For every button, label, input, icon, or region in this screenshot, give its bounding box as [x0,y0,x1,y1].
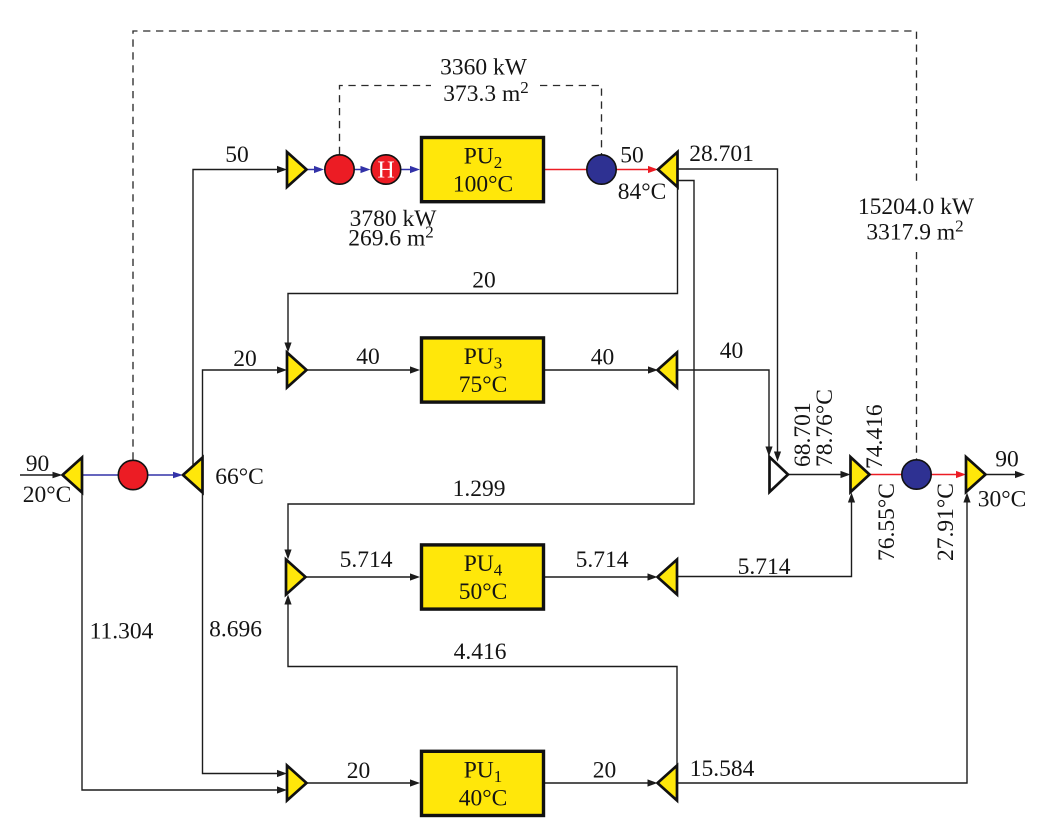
svg-text:3317.9 m2: 3317.9 m2 [866,217,963,246]
svg-text:78.76°C: 78.76°C [812,389,838,467]
mixer T1in [287,766,307,801]
svg-text:66°C: 66°C [215,464,264,490]
wire Tmix to cooler E1 hot side to Tout (red) [870,471,967,478]
wire 20 riser from T66 to PU3 mixer [203,366,288,457]
svg-text:75°C: 75°C [459,372,508,398]
wire 15.584 from T1out up to Tout [677,493,971,784]
exchanger E1 hot-side circle (blue) [902,460,931,489]
wire T1in to PU1 inlet [307,779,421,786]
splitter T4out [658,560,678,595]
heater H circle [371,155,400,184]
svg-text:20: 20 [472,268,496,294]
process unit PU2 box [422,138,544,202]
svg-text:74.416: 74.416 [862,404,888,469]
svg-text:40°C: 40°C [459,785,508,811]
wire splitter Tin to exchanger E1 cold inlet (blue) [82,474,133,476]
exchanger E2 hot-side circle (blue) [587,155,616,184]
svg-text:30°C: 30°C [978,487,1027,513]
svg-text:20: 20 [593,758,617,784]
wire 20 recycle from T2out to PU3 mixer [284,187,677,353]
wire freshwater inlet arrow [20,472,63,479]
wire 5.714 from T4out up to Tmix [677,493,855,577]
svg-text:50: 50 [620,143,644,169]
svg-text:100°C: 100°C [453,172,513,198]
wire 28.701 from T2out down to white mixer W [678,169,782,462]
splitter T1out [658,766,678,801]
svg-text:50: 50 [225,142,249,168]
wire PU3 outlet to T3out [545,366,658,373]
wire 50 riser from T66 to PU2 splitter [193,166,287,466]
svg-text:20: 20 [347,758,371,784]
svg-text:20: 20 [233,346,257,372]
svg-text:373.3 m2: 373.3 m2 [443,78,529,107]
svg-text:90: 90 [26,451,50,477]
wire dashed heat link E1 cold to E1 cooler upper run [133,31,917,460]
splitter Tin [63,458,83,493]
svg-text:40: 40 [720,338,744,364]
wire PU1 outlet to T1out [545,779,658,786]
wire treated water outlet arrow [986,471,1025,478]
wire 1.299 from T2out to PU4 mixer [284,181,694,560]
svg-text:40: 40 [356,344,380,370]
wire PU4 outlet to T4out [545,573,658,580]
process unit PU3 box [422,338,544,402]
white mixer W [770,457,789,492]
wire PU2 outlet hot stream to T2out (red) [545,166,658,173]
svg-text:76.55°C: 76.55°C [874,483,900,561]
mixer T3in [287,353,307,388]
wire white mixer W to mixer Tmix [788,471,851,478]
mixer T66 [183,458,203,493]
wire dashed heat link E2 left run [340,86,432,155]
svg-text:5.714: 5.714 [738,554,791,580]
exchanger E1 cold-side circle (red) [118,460,147,489]
wire T4in to PU4 inlet [306,573,421,580]
svg-text:269.6 m2: 269.6 m2 [348,223,434,252]
exchanger E2 cold-side circle (red) [325,155,354,184]
process unit PU4 box [422,545,544,609]
svg-text:28.701: 28.701 [689,141,754,167]
wire dashed heat link E2 right run [540,86,602,155]
splitter T2in [287,152,307,187]
svg-text:50°C: 50°C [459,579,508,605]
svg-text:11.304: 11.304 [90,619,154,645]
wire exchanger E2 to heater H (blue) [355,166,371,173]
mixer T4in [286,560,306,595]
svg-text:8.696: 8.696 [209,617,262,643]
svg-text:1.299: 1.299 [453,476,506,502]
svg-text:15.584: 15.584 [690,756,755,782]
process unit PU1 box [422,751,544,815]
svg-text:5.714: 5.714 [576,547,629,573]
wire 8.696 drop from T66 to PU1 mixer [203,493,288,778]
mixer Tmix [851,457,870,492]
wire T3in to PU3 inlet [307,366,421,373]
svg-text:3360 kW: 3360 kW [440,55,528,81]
wire exchanger E1 outlet to mixer T66 (blue) [133,472,183,479]
wire bypass 11.304 from Tin down to PU1 mixer [82,493,287,794]
svg-text:27.91°C: 27.91°C [933,483,959,561]
wire 40 from T3out down to white mixer W [677,370,773,457]
wire heater H to PU2 inlet (blue) [402,166,421,173]
splitter T2out [658,152,678,187]
wire dashed heat link E1 lower run [916,252,918,459]
wire 4.416 from T1out up to PU4 mixer [284,595,677,766]
svg-text:40: 40 [591,345,615,371]
svg-text:84°C: 84°C [618,179,667,205]
svg-text:20°C: 20°C [23,482,72,508]
svg-text:H: H [377,158,394,184]
svg-text:90: 90 [995,447,1019,473]
wire T2in to exchanger E2 (blue) [307,166,325,173]
splitter T3out [658,353,678,388]
svg-text:4.416: 4.416 [454,639,507,665]
svg-text:5.714: 5.714 [340,547,393,573]
mixer Tout [966,457,986,492]
